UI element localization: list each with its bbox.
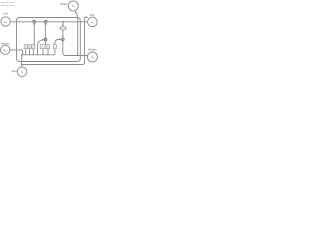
svg-text:Input: Input <box>11 70 16 73</box>
svg-text:and operations: and operations <box>0 4 15 7</box>
svg-text:Hidden: Hidden <box>88 48 97 52</box>
svg-text:Legend: vector: Legend: vector <box>0 1 15 4</box>
svg-text:tanh: tanh <box>61 27 65 30</box>
svg-text:tanh: tanh <box>41 46 45 49</box>
svg-text:Output: Output <box>60 3 68 6</box>
svg-text:Cell: Cell <box>90 13 95 17</box>
svg-text:Cell: Cell <box>3 12 8 16</box>
svg-text:Hidden: Hidden <box>1 42 10 46</box>
